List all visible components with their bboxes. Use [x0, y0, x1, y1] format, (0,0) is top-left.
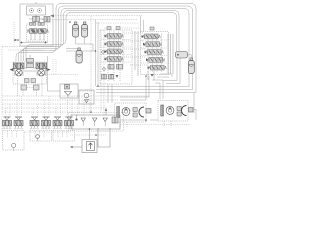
wire left vertical dashed: [1, 47, 3, 132]
pump A valves: [133, 108, 137, 118]
pump A bracket: [139, 107, 144, 117]
regulator cap 3: [38, 22, 41, 25]
travel lower small rects: [25, 79, 36, 83]
pump P1 mid valve: [33, 17, 40, 22]
cylinder C1: [176, 52, 188, 59]
manifold right valve: [112, 117, 118, 123]
main valve dashed boundary R: [141, 32, 169, 75]
return filter box: [82, 140, 97, 153]
pump B drop dashes: [164, 121, 171, 127]
relief valve on pump: [44, 17, 50, 23]
wire manifold right link: [120, 120, 158, 122]
main L bottom squiggle: [102, 75, 119, 80]
pilot group 3 dashed box: [53, 131, 75, 142]
travel motor right: [36, 63, 47, 76]
wire loop 1: [16, 4, 196, 93]
travel center wires: [24, 68, 36, 71]
main valve port circle: [102, 51, 105, 54]
wire filter dashes: [70, 134, 106, 136]
wire dashed top link2: [42, 19, 138, 21]
main spool L3: [105, 49, 124, 54]
travel below-box symbols: [21, 85, 39, 90]
wire pilot dashed bus: [2, 46, 56, 48]
wire bus y108: [2, 107, 106, 109]
regulator dashed box: [27, 24, 48, 42]
wire solenoid vert dashed: [13, 22, 15, 47]
manifold inlet dot: [75, 115, 77, 121]
filter triangle: [65, 92, 72, 99]
wire filter to main: [78, 90, 96, 92]
wire loop3 tail: [96, 86, 189, 88]
wire dashed x53 x56: [53, 59, 56, 75]
wire loop 2: [19, 6, 193, 90]
wire right corner 1: [120, 76, 146, 100]
filter box outline: [60, 84, 78, 98]
main spool L2: [105, 42, 124, 47]
regulator valve right: [36, 29, 48, 34]
main spool R2: [143, 42, 162, 47]
wire bus y96: [2, 95, 150, 97]
pump B coupler: [161, 105, 164, 116]
filter top valve: [65, 85, 70, 90]
pump group B dashed box: [158, 101, 188, 122]
wire right vert down: [193, 93, 195, 114]
wire top vert pair: [141, 16, 144, 32]
wire x47.5 vertical: [48, 56, 61, 91]
pilot group 2 risers: [33, 96, 49, 117]
pilot group 1 risers: [6, 96, 22, 117]
node arrow A: [50, 15, 54, 18]
main R bottom marks: [145, 71, 154, 80]
wire loop 4: [24, 11, 180, 62]
pilot group 2 inner dashes: [35, 131, 44, 138]
regulator marks below: [28, 34, 46, 41]
wire loop2 tail: [96, 89, 193, 91]
pilot valve group 3 right: [65, 117, 74, 129]
wire filter inlet: [70, 146, 82, 148]
check valve circle: [84, 93, 89, 103]
pump P1 shaft line: [35, 15, 37, 18]
manifold check 1: [81, 118, 85, 126]
wire y51 to center: [66, 50, 96, 52]
wire travelbox to filter: [47, 74, 79, 76]
pump A out port: [146, 109, 151, 114]
wire center vert dashed 1: [90, 16, 92, 112]
wire manifold risers: [78, 96, 90, 115]
main valve R right verticals: [168, 34, 173, 74]
main spool R4: [146, 57, 165, 62]
wire right corner 2: [120, 76, 149, 97]
wire dashed top link3: [96, 22, 138, 24]
junction dots: [69, 21, 147, 130]
wire center vert dashed 3: [103, 30, 105, 115]
pump unit P1 outer box: [20, 4, 53, 46]
manifold check 2: [93, 118, 97, 126]
wire loop1 tail: [96, 92, 196, 94]
regulator valve left: [27, 29, 39, 34]
wire travel down 4: [41, 78, 43, 96]
travel unit top rects: [27, 55, 34, 68]
wire y48.5 to acc3: [66, 48, 79, 50]
pilot group 2 dashed box: [30, 131, 52, 142]
main spool L4: [105, 57, 124, 62]
wire travel down 1: [17, 78, 19, 96]
main valve mid verticals: [135, 31, 138, 76]
pilot manifold box: [69, 113, 124, 132]
pump bottom wire: [20, 42, 48, 44]
main valve dashed boundary L: [100, 30, 132, 84]
pilot group 2 shuttle: [36, 135, 40, 141]
main spool R1: [142, 34, 161, 39]
wire tank top dash: [96, 130, 111, 132]
wire travel down 2: [22, 90, 24, 96]
main valve L bottom marks: [103, 66, 120, 82]
main valve inner dashes: [124, 33, 148, 65]
main spool L1: [105, 34, 124, 39]
wire dashed top link: [50, 15, 142, 17]
wire loop 3: [21, 9, 189, 87]
wire valve bottom corner 1: [160, 74, 172, 77]
accumulator ACC3: [76, 48, 82, 63]
wire travel down 3: [36, 90, 38, 96]
pump B out port: [189, 108, 194, 113]
main R top symbol: [150, 27, 154, 30]
pump group A dashed box: [115, 103, 147, 122]
accumulator ACC1: [73, 22, 79, 37]
main L texture verticals: [110, 31, 124, 70]
wire right corner 4: [155, 83, 160, 99]
manifold check 3: [103, 118, 107, 126]
wire pump to loops top: [35, 2, 37, 4]
pilot valve group 2 left: [30, 117, 39, 129]
pilot group 3 inner dashes: [58, 131, 67, 138]
pump A circle: [122, 108, 130, 116]
pump P1 mid marks: [29, 18, 44, 20]
node arrow B: [15, 39, 19, 41]
regulator cap 2: [33, 22, 36, 25]
wire bus y112: [2, 111, 91, 113]
regulator cap 1: [30, 22, 33, 25]
pump B bracket: [182, 106, 187, 116]
wire main to pumpA: [108, 84, 112, 103]
pilot group 1 inner dashes: [8, 131, 17, 138]
main spool R5: [148, 65, 167, 70]
wire valve bottom corner 2: [157, 76, 169, 78]
wire acc4 drop: [188, 55, 192, 58]
main valve top symbols: [104, 27, 140, 30]
pilot valve group 2 right: [42, 117, 51, 129]
wire center vert solid 2: [97, 22, 99, 86]
main spool R3: [145, 50, 164, 55]
check valve box: [79, 90, 94, 104]
tank outline: [98, 128, 110, 147]
wire loop5 resume: [163, 58, 177, 80]
regulator cap 4: [42, 22, 45, 25]
pump P1 ellipse left: [29, 9, 34, 13]
pump P1 ellipse right: [37, 9, 42, 13]
pilot valve group 1 right: [14, 117, 23, 129]
pump P1 top sub-box: [27, 6, 46, 15]
wire acc3 drop: [78, 49, 80, 51]
wire dashed y50: [8, 49, 44, 51]
wire bottom right dash: [120, 124, 190, 126]
main valve L row5 rects: [108, 65, 123, 70]
wire pilot box link dash: [24, 131, 71, 133]
wire loop 5: [26, 13, 177, 62]
wire bus y104: [2, 103, 96, 105]
wire right corner 3: [152, 80, 163, 99]
pilot valve group 1 left: [3, 117, 12, 129]
main R inter-row dashes: [141, 40, 168, 63]
travel motor left: [14, 63, 25, 76]
pilot valve group 3 left: [53, 117, 62, 129]
main L inter-row dashes: [101, 40, 131, 63]
wire loop4 resume: [166, 58, 180, 83]
pump A coupler: [117, 107, 120, 118]
wire center vert dashed 2: [100, 30, 102, 112]
pilot group 1 shuttle: [12, 143, 16, 151]
pump B circle: [166, 107, 174, 115]
pump A drop dashes: [120, 122, 127, 128]
travel brake arrow right: [47, 68, 51, 71]
wire pumpB right: [193, 110, 196, 121]
wire bus y100: [2, 99, 118, 101]
manifold top arrow: [105, 108, 107, 115]
return filter inner: [87, 142, 95, 151]
travel brake arrow left: [10, 68, 14, 71]
wire center vert solid 1: [95, 20, 97, 86]
accumulator ACC4: [188, 58, 194, 74]
pump B valves: [177, 107, 181, 117]
pilot group 3 risers: [56, 96, 72, 117]
travel unit dashed boundary: [13, 62, 47, 84]
pilot group 1 dashed box: [3, 131, 25, 151]
wire accumulator drain: [76, 37, 93, 51]
wire manifold to filter: [89, 129, 91, 140]
main R texture verticals: [148, 33, 162, 72]
accumulator ACC2: [82, 22, 88, 37]
